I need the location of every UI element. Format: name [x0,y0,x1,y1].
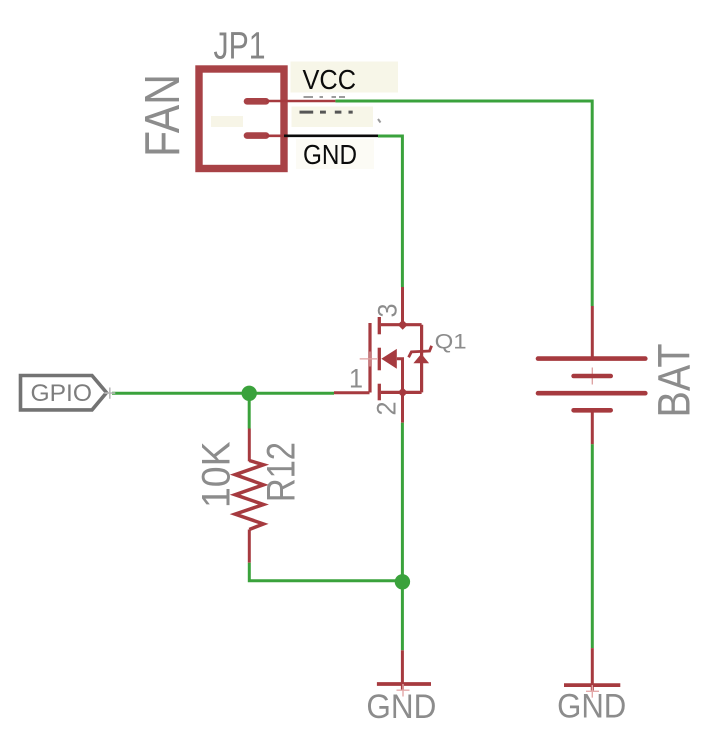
junction dot A (GPIO/R12 node) [242,386,257,401]
wire resistor bottom (green) down and right to source node [249,563,402,581]
wire source to GND node (green) [401,423,404,581]
battery origin cross (light) [584,368,601,385]
svg-text:GPIO: GPIO [31,380,93,407]
GND lead middle (red) [401,650,404,689]
battery BAT plate 2 [574,374,611,379]
remnant dash light [378,119,381,123]
connector JP1 body [199,69,284,169]
Q1 source junction diamond [398,387,408,397]
Q1 channel dash bottom [378,384,381,401]
svg-text:BAT: BAT [649,344,700,418]
GPIO flag outline [21,376,107,410]
erasure box inside connector [211,116,243,127]
net GND wire: short green from black line, corner down [378,136,402,287]
wire junction to gate (green part) [249,392,334,395]
ground middle origin cross (light) [397,684,410,697]
svg-text:JP1: JP1 [214,26,266,68]
connector pin stub 1 (VCC) [247,98,266,105]
svg-text:R12: R12 [260,442,304,502]
net VCC wire: pin1 right then down to battery (green) [335,101,592,306]
Q1 gate bar [368,323,371,393]
battery BAT plate 3 [538,391,645,396]
ground symbol middle [377,682,431,686]
connector pin 2 lead (red) [266,135,289,138]
resistor R12 top lead (red) [248,429,251,462]
svg-text:3: 3 [372,304,402,318]
Q1 drain junction diamond [398,320,408,330]
Q1 body diode cathode (bent) [409,346,432,358]
svg-text:10K: 10K [194,441,238,508]
wire junction down to resistor (green) [248,393,251,428]
wire battery to GND right (green) [591,444,594,648]
junction dot B (source/R12/GND node) [395,574,410,589]
Q1 drain lead [381,323,422,326]
connector pin 1 lead (red) [266,100,335,103]
remnant dashes of erased net name (above wire) [304,96,346,98]
ground right origin cross (light) [586,685,599,698]
svg-text:GND: GND [303,139,357,170]
svg-text:1: 1 [349,364,363,394]
Q1 bulk link [397,359,403,393]
resistor R12 zigzag [235,461,263,530]
battery BAT plate 4 [574,408,611,413]
svg-text:VCC: VCC [303,64,357,95]
wire GPIO to junction (green) [112,392,249,395]
GND lead right (red) [591,648,594,690]
Q1 body diode branch [420,325,423,393]
Q1 channel dash top [378,317,381,334]
ground symbol right [564,683,620,687]
erasure box behind old net label dashes [292,107,374,128]
svg-text:Q1: Q1 [435,331,467,354]
svg-text:GND: GND [366,688,436,726]
svg-text:FAN: FAN [135,74,190,157]
battery bottom lead (red) [591,411,594,444]
GPIO attach cross [104,388,115,399]
Q1 origin cross (light) [360,352,377,367]
svg-text:2: 2 [372,402,402,416]
source pin lead below Q1 (red) [401,395,404,423]
connector pin stub 2 (GND) [247,132,266,139]
Q1 channel dash middle [378,348,381,371]
Q1 source lead [381,391,422,394]
battery BAT plate 1 [538,356,645,361]
erasure box behind VCC [291,62,399,93]
gate lead (red) [334,391,370,394]
black annotation line pin 2 [284,134,379,137]
erasure box behind GND label [296,139,374,169]
remnant dashes of erased net name (below wire) [300,111,353,114]
battery top lead (red) [591,306,594,357]
Q1 bulk arrow [381,349,397,369]
wire node B down (green) [401,581,404,650]
Q1 body diode triangle [413,354,429,363]
resistor R12 bottom lead (red) [248,530,251,563]
drain pin lead (red) [401,287,404,322]
svg-text:GND: GND [557,687,626,725]
